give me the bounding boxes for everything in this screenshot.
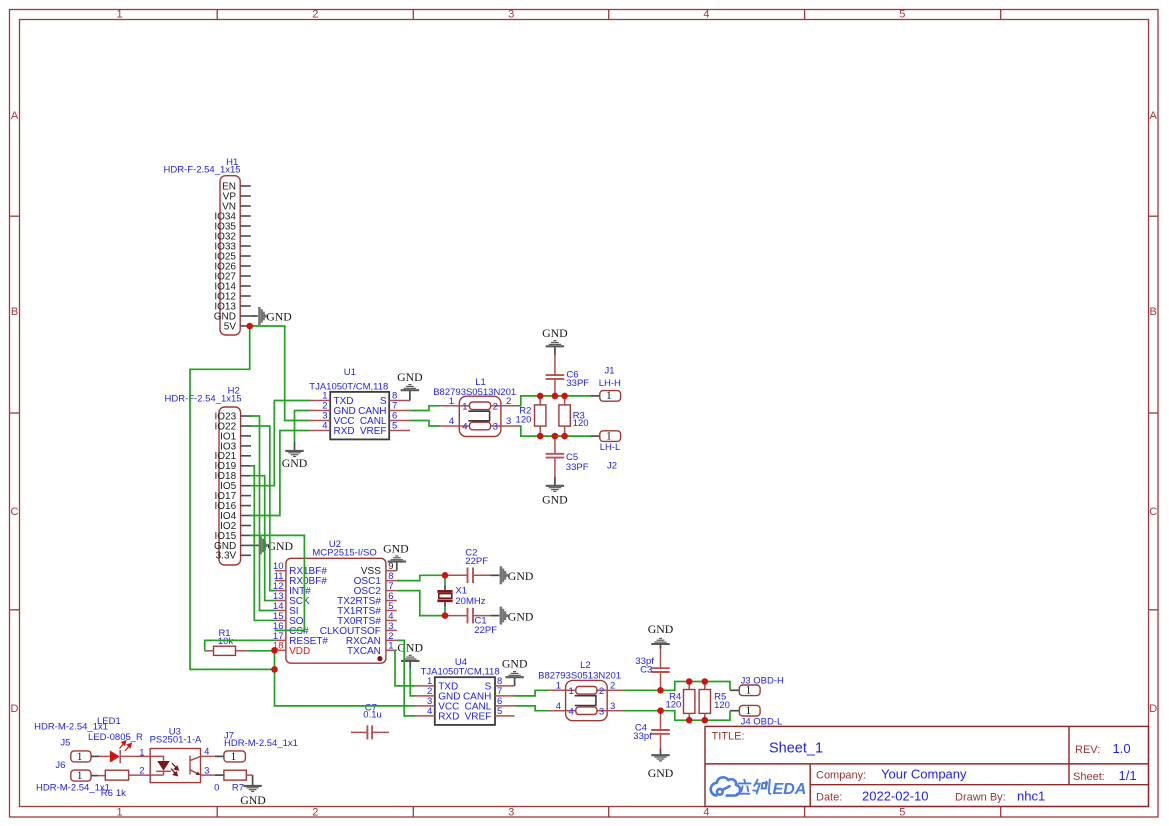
svg-text:2: 2: [599, 686, 604, 697]
svg-text:R6: R6: [101, 788, 113, 799]
svg-text:1: 1: [77, 770, 83, 782]
svg-text:GND: GND: [508, 569, 534, 583]
svg-text:4: 4: [703, 9, 709, 21]
svg-text:3: 3: [610, 701, 615, 712]
svg-text:20MHz: 20MHz: [455, 596, 485, 607]
svg-text:HDR-F-2.54_1x15: HDR-F-2.54_1x15: [165, 394, 242, 405]
svg-text:4: 4: [462, 422, 467, 433]
svg-text:120: 120: [516, 414, 532, 425]
svg-text:HDR-M-2.54_1x1: HDR-M-2.54_1x1: [34, 722, 108, 733]
svg-text:1: 1: [569, 686, 574, 697]
svg-text:LH-L: LH-L: [600, 442, 621, 453]
svg-text:1: 1: [606, 430, 612, 442]
svg-text:TXCAN: TXCAN: [347, 646, 381, 657]
svg-text:J4 OBD-L: J4 OBD-L: [741, 717, 783, 728]
svg-text:3: 3: [493, 422, 498, 433]
svg-text:GND: GND: [266, 310, 292, 324]
svg-text:22PF: 22PF: [474, 625, 497, 636]
svg-text:33PF: 33PF: [566, 378, 589, 389]
svg-text:4: 4: [556, 701, 561, 712]
svg-text:GND: GND: [383, 542, 409, 556]
svg-text:TITLE:: TITLE:: [712, 731, 745, 743]
svg-text:Sheet_1: Sheet_1: [769, 741, 823, 757]
svg-text:Drawn By:: Drawn By:: [955, 792, 1006, 804]
svg-text:D: D: [1149, 703, 1157, 715]
svg-text:2: 2: [493, 401, 498, 412]
svg-text:4: 4: [449, 416, 454, 427]
svg-text:RXD: RXD: [438, 711, 459, 722]
svg-text:22PF: 22PF: [465, 556, 488, 567]
svg-text:C3: C3: [640, 665, 652, 676]
svg-text:EDA: EDA: [773, 781, 807, 798]
svg-text:J3 OBD-H: J3 OBD-H: [741, 675, 784, 686]
svg-text:Sheet:: Sheet:: [1073, 771, 1105, 783]
svg-text:HDR-M-2.54_1x1: HDR-M-2.54_1x1: [224, 738, 298, 749]
svg-text:4: 4: [427, 706, 432, 717]
svg-text:B: B: [11, 306, 18, 318]
svg-text:5: 5: [899, 806, 905, 818]
svg-text:PS2501-1-A: PS2501-1-A: [150, 735, 202, 746]
svg-text:MCP2515-I/SO: MCP2515-I/SO: [312, 547, 376, 558]
svg-text:5: 5: [497, 706, 502, 717]
svg-text:R7: R7: [232, 783, 244, 794]
svg-text:1: 1: [746, 705, 752, 717]
svg-text:TJA1050T/CM,118: TJA1050T/CM,118: [421, 667, 500, 678]
svg-text:GND: GND: [268, 539, 294, 553]
svg-text:1: 1: [462, 401, 467, 412]
svg-text:GND: GND: [240, 793, 266, 807]
svg-text:VREF: VREF: [465, 711, 492, 722]
svg-text:1/1: 1/1: [1119, 768, 1137, 783]
svg-text:1: 1: [139, 747, 144, 758]
svg-text:1: 1: [556, 681, 561, 692]
svg-text:GND: GND: [397, 370, 423, 384]
svg-text:2: 2: [139, 766, 144, 777]
svg-text:4: 4: [703, 806, 709, 818]
svg-text:1: 1: [230, 751, 236, 763]
svg-text:A: A: [11, 110, 19, 122]
svg-text:4: 4: [569, 706, 574, 717]
svg-text:1k: 1k: [116, 788, 126, 799]
svg-text:3: 3: [506, 416, 511, 427]
svg-text:REV:: REV:: [1075, 744, 1100, 756]
svg-text:U1: U1: [344, 367, 356, 378]
svg-text:1: 1: [116, 9, 122, 21]
svg-text:1: 1: [116, 806, 122, 818]
svg-text:GND: GND: [542, 326, 568, 340]
svg-text:4: 4: [322, 421, 327, 432]
svg-text:0.1u: 0.1u: [363, 709, 382, 720]
svg-text:D: D: [11, 703, 19, 715]
svg-text:GND: GND: [282, 456, 308, 470]
svg-text:Company:: Company:: [816, 770, 866, 782]
svg-text:0: 0: [214, 783, 219, 794]
svg-text:VDD: VDD: [289, 646, 310, 657]
svg-text:L2: L2: [580, 660, 591, 671]
svg-text:GND: GND: [397, 641, 423, 655]
svg-text:TJA1050T/CM,118: TJA1050T/CM,118: [309, 381, 388, 392]
svg-text:VREF: VREF: [360, 426, 387, 437]
svg-text:LH-H: LH-H: [599, 378, 621, 389]
svg-text:120: 120: [573, 418, 589, 429]
svg-text:5: 5: [392, 421, 397, 432]
svg-text:2: 2: [312, 806, 318, 818]
svg-text:RXD: RXD: [334, 426, 355, 437]
svg-text:GND: GND: [648, 766, 674, 780]
svg-text:2022-02-10: 2022-02-10: [862, 789, 929, 804]
svg-text:3: 3: [508, 806, 514, 818]
svg-text:1: 1: [77, 751, 83, 763]
svg-text:1: 1: [388, 641, 393, 652]
svg-text:J2: J2: [607, 460, 617, 471]
svg-text:C: C: [1149, 506, 1157, 518]
svg-text:B: B: [1150, 306, 1157, 318]
svg-text:nhc1: nhc1: [1017, 789, 1045, 804]
svg-text:10k: 10k: [218, 636, 234, 647]
svg-text:2: 2: [312, 9, 318, 21]
svg-text:1: 1: [606, 390, 612, 402]
svg-text:120: 120: [665, 699, 681, 710]
svg-text:3: 3: [508, 9, 514, 21]
svg-text:3: 3: [599, 706, 604, 717]
svg-text:2: 2: [610, 681, 615, 692]
svg-text:J5: J5: [60, 738, 70, 749]
svg-text:A: A: [1150, 110, 1158, 122]
svg-text:Your Company: Your Company: [881, 767, 967, 782]
svg-text:HDR-M-2.54_1x1: HDR-M-2.54_1x1: [36, 783, 110, 794]
svg-text:Date:: Date:: [816, 792, 842, 804]
svg-text:HDR-F-2.54_1x15: HDR-F-2.54_1x15: [164, 164, 241, 175]
svg-text:5: 5: [899, 9, 905, 21]
svg-text:B82793S0513N201: B82793S0513N201: [433, 387, 516, 398]
svg-text:J1: J1: [604, 366, 614, 377]
svg-text:5V: 5V: [224, 321, 237, 332]
svg-text:1.0: 1.0: [1113, 741, 1131, 756]
svg-text:C: C: [11, 506, 19, 518]
svg-text:GND: GND: [648, 622, 674, 636]
svg-text:3.3V: 3.3V: [216, 551, 237, 562]
svg-text:33PF: 33PF: [566, 462, 589, 473]
svg-text:120: 120: [714, 700, 730, 711]
svg-text:GND: GND: [508, 609, 534, 623]
svg-text:B82793S0513N201: B82793S0513N201: [538, 671, 621, 682]
svg-text:J6: J6: [55, 760, 65, 771]
svg-text:GND: GND: [542, 492, 568, 506]
svg-text:GND: GND: [502, 657, 528, 671]
svg-text:LED-0805_R: LED-0805_R: [88, 732, 143, 743]
svg-text:33pf: 33pf: [633, 731, 652, 742]
